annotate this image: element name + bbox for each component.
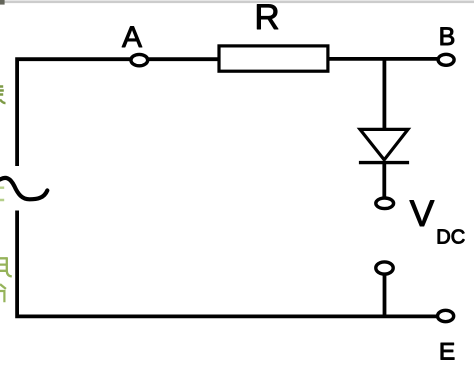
svg-text:A: A bbox=[122, 21, 142, 54]
svg-text:DC: DC bbox=[436, 227, 465, 249]
svg-text:E: E bbox=[439, 339, 455, 366]
svg-text:B: B bbox=[439, 23, 456, 51]
svg-text:V: V bbox=[410, 193, 435, 234]
svg-text:R: R bbox=[254, 0, 279, 37]
